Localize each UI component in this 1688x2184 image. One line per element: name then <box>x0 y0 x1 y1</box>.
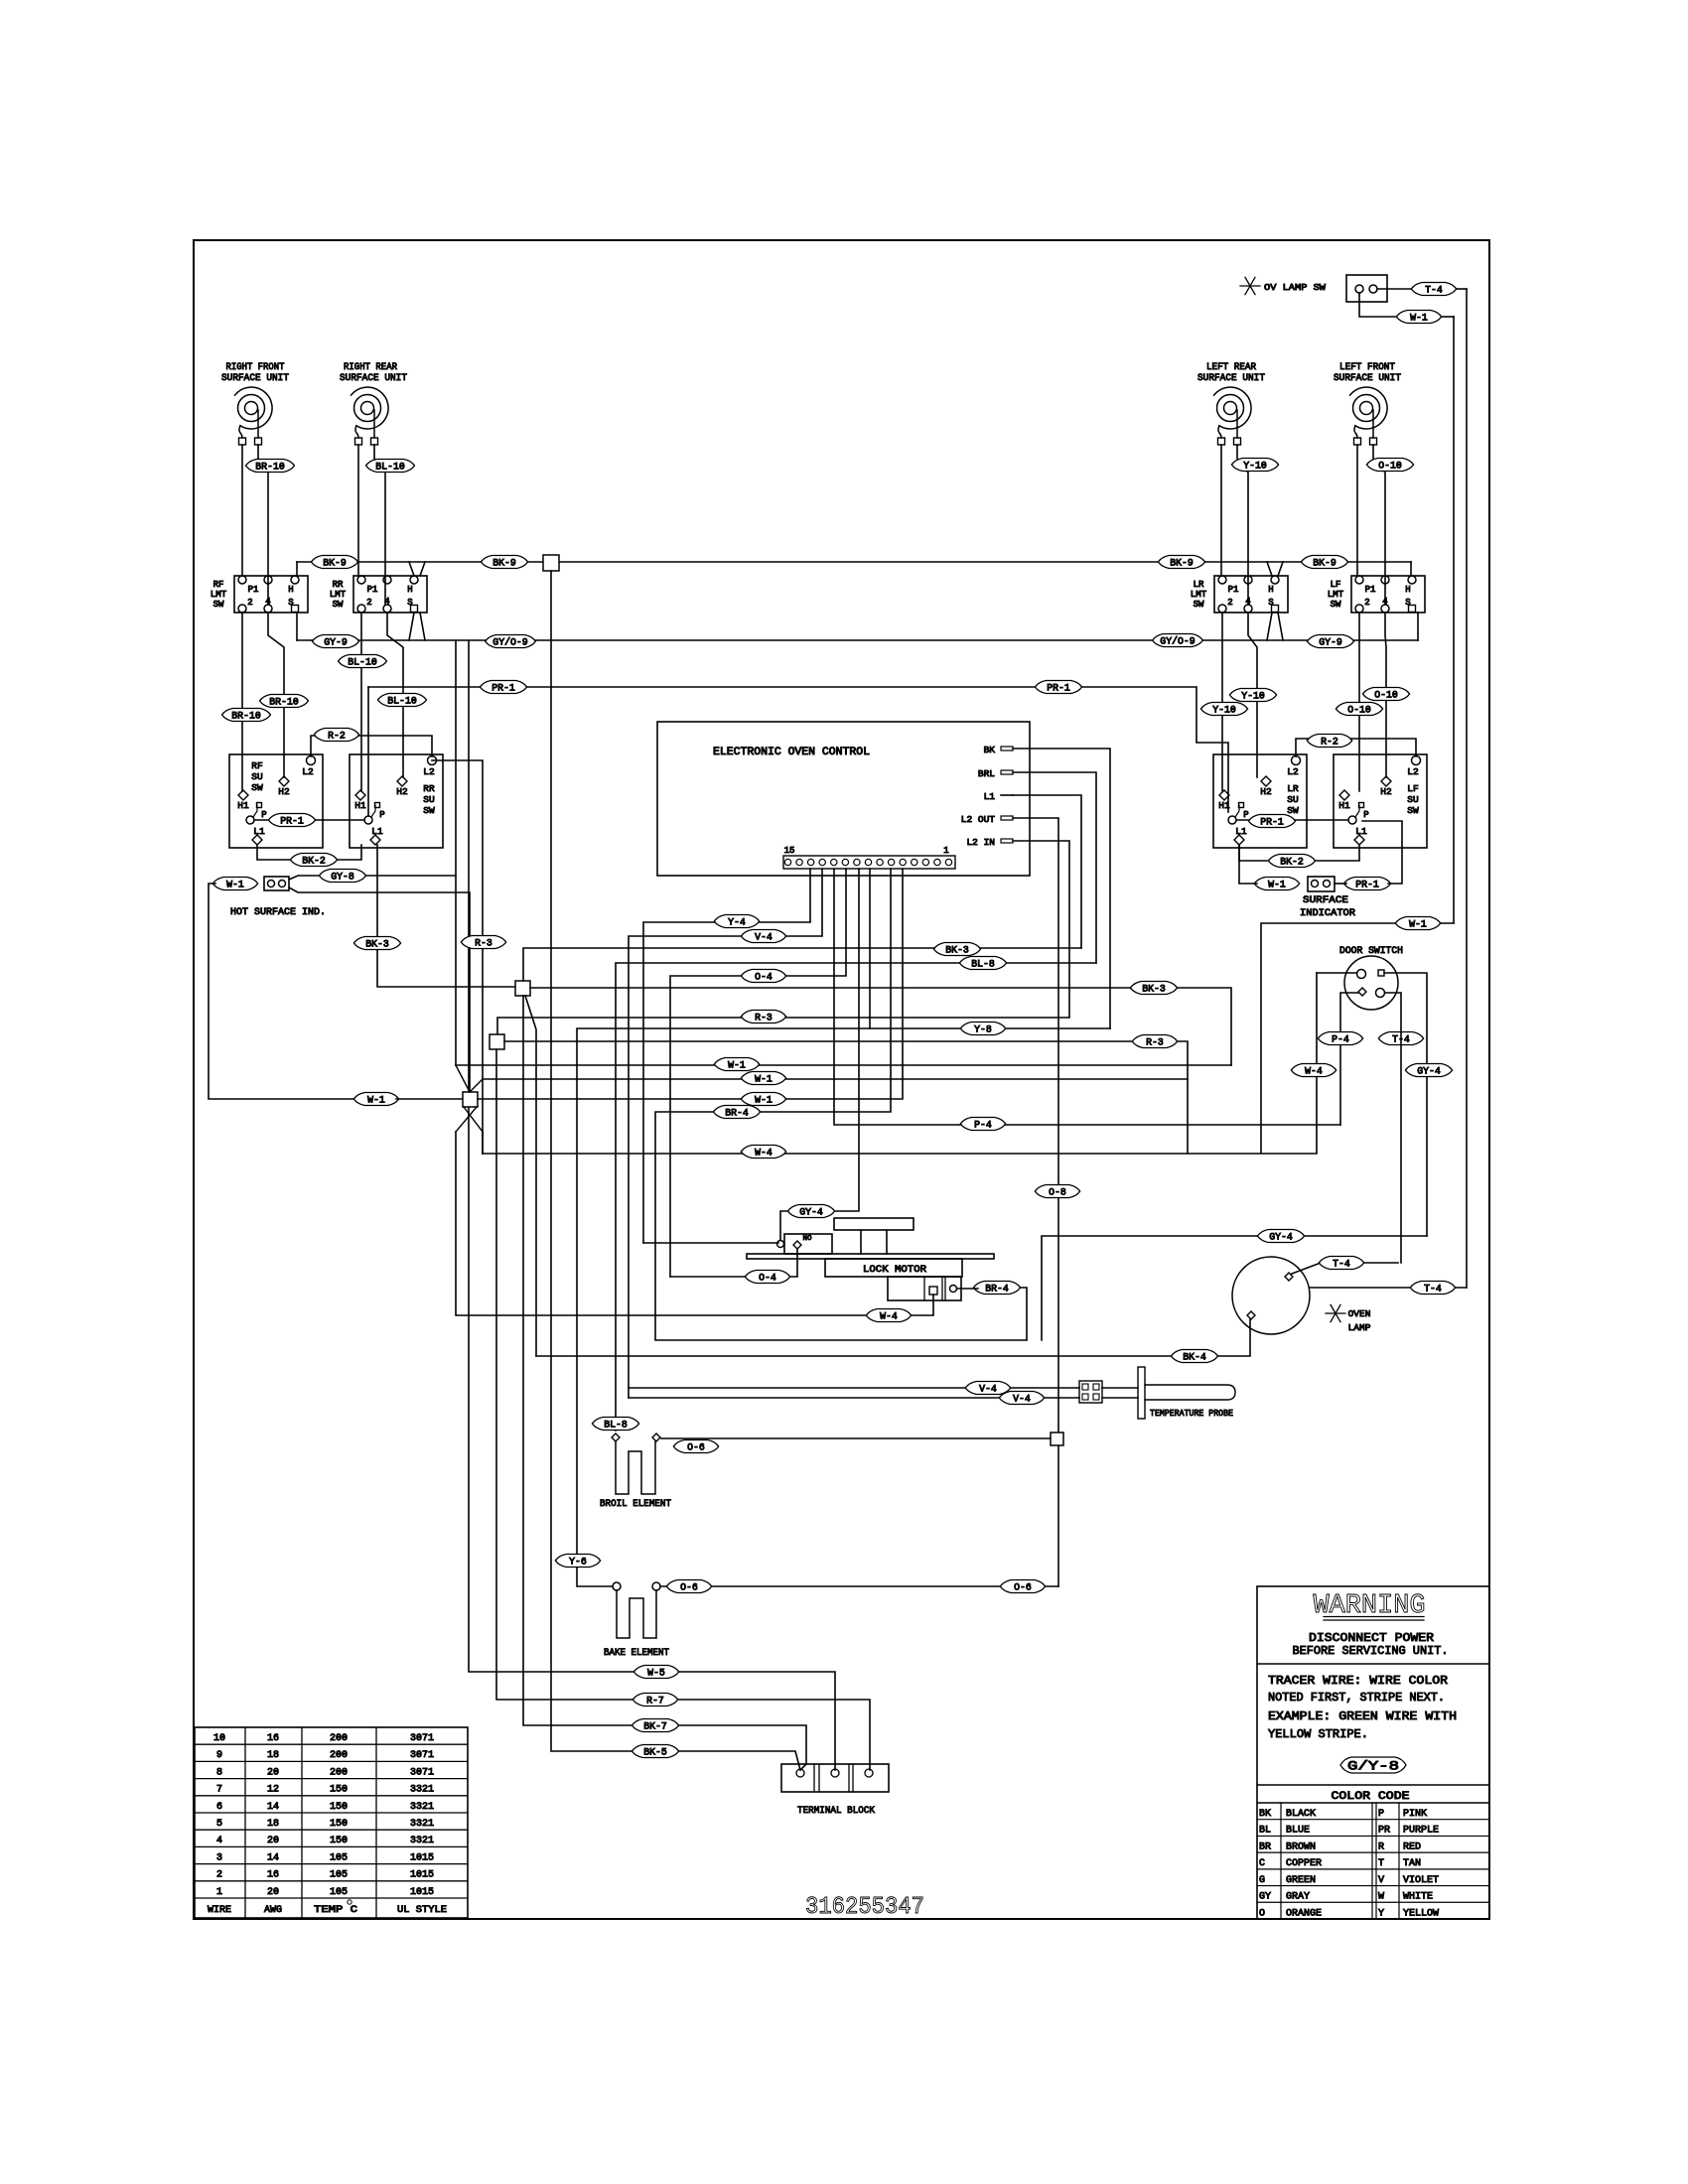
electronic oven control title <box>713 747 870 758</box>
wire RF coil t2 <box>258 445 268 605</box>
label W-4 door <box>1291 1064 1336 1078</box>
svg-text:OVEN: OVEN <box>1348 1308 1371 1319</box>
wire R-2 right <box>1296 739 1416 756</box>
EOC terminal L2 IN <box>966 837 1013 848</box>
svg-text:3: 3 <box>216 1852 222 1863</box>
svg-text:8: 8 <box>216 1767 222 1778</box>
wire BK-3 right from junction <box>530 988 1231 1065</box>
wire Y-8 line <box>577 869 1110 1586</box>
svg-text:BL-10: BL-10 <box>375 462 405 473</box>
svg-text:3071: 3071 <box>410 1750 434 1761</box>
wire L2 RR drop x486 <box>432 760 483 1154</box>
svg-text:V-4: V-4 <box>979 1384 997 1395</box>
wire O-4 lock <box>670 1249 797 1277</box>
wire BK-2 right <box>1239 845 1359 861</box>
svg-text:NOTED FIRST, STRIPE NEXT.: NOTED FIRST, STRIPE NEXT. <box>1268 1691 1445 1705</box>
label R-7 <box>633 1694 677 1707</box>
wire GY-9 drop x459 <box>455 640 457 1065</box>
svg-text:Y-10: Y-10 <box>1212 705 1236 716</box>
svg-text:BLACK: BLACK <box>1286 1809 1316 1820</box>
svg-text:PR-1: PR-1 <box>280 816 304 827</box>
svg-text:V: V <box>1378 1875 1384 1886</box>
wire door LR <box>1385 993 1401 1263</box>
left front surface unit coil <box>1350 387 1388 445</box>
wire V-4 line1 <box>629 1387 1079 1389</box>
asterisk ov lamp sw <box>1240 277 1260 294</box>
svg-text:O-6: O-6 <box>680 1582 698 1593</box>
lock motor text <box>863 1265 926 1276</box>
svg-text:P: P <box>1378 1809 1384 1820</box>
EOC pin label 15 <box>784 846 795 856</box>
svg-text:BK-9: BK-9 <box>323 558 347 569</box>
svg-text:ORANGE: ORANGE <box>1286 1908 1322 1919</box>
svg-text:SU: SU <box>423 794 435 805</box>
svg-text:BAKE ELEMENT: BAKE ELEMENT <box>604 1648 669 1659</box>
svg-text:2: 2 <box>366 598 371 608</box>
left rear surface unit label <box>1197 362 1265 384</box>
surface indicator text <box>1300 895 1355 919</box>
label BL-8 broil <box>592 1418 638 1432</box>
svg-text:150: 150 <box>330 1802 348 1813</box>
svg-text:H2: H2 <box>278 786 290 797</box>
door switch text <box>1339 946 1403 957</box>
label W-1 left line <box>353 1093 398 1107</box>
svg-text:3071: 3071 <box>410 1767 434 1778</box>
broil element text <box>600 1499 671 1510</box>
lock motor bar <box>747 1254 994 1259</box>
wire GY-4 lock <box>780 869 859 1240</box>
tracer text3 <box>1268 1709 1457 1723</box>
label T-4 door <box>1378 1032 1423 1046</box>
svg-text:LR: LR <box>1287 783 1299 794</box>
svg-text:W-4: W-4 <box>1305 1066 1323 1077</box>
svg-text:SW: SW <box>1287 805 1299 816</box>
svg-text:14: 14 <box>267 1852 279 1863</box>
LR LMT SW box <box>1191 576 1288 613</box>
svg-text:COPPER: COPPER <box>1286 1858 1322 1869</box>
svg-text:H: H <box>1268 585 1273 595</box>
svg-text:GY-4: GY-4 <box>799 1207 823 1218</box>
svg-text:W-5: W-5 <box>647 1668 665 1679</box>
svg-text:R-3: R-3 <box>755 1013 773 1024</box>
label T-4 top <box>1411 283 1456 297</box>
wire W-1 door line <box>1261 923 1454 1153</box>
wire T-4 lamp1 <box>1292 1263 1398 1274</box>
svg-text:W-1: W-1 <box>1409 919 1427 930</box>
svg-text:SW: SW <box>251 782 263 793</box>
svg-text:Y-10: Y-10 <box>1243 461 1267 472</box>
wire PR-1 stub RR P <box>367 687 369 815</box>
svg-text:GREEN: GREEN <box>1286 1875 1316 1886</box>
svg-text:O-6: O-6 <box>687 1442 705 1453</box>
wire L1 terminal <box>1013 795 1081 948</box>
wire BK-4 diag from junction <box>525 996 536 1356</box>
border frame <box>194 240 1489 1919</box>
svg-text:O-8: O-8 <box>1049 1187 1066 1198</box>
svg-text:PR: PR <box>1378 1826 1390 1837</box>
label W-4 line <box>741 1146 785 1160</box>
svg-text:BR-10: BR-10 <box>255 462 285 473</box>
svg-text:R-3: R-3 <box>1146 1037 1164 1048</box>
surface indicator box <box>1308 877 1335 891</box>
svg-text:BL-10: BL-10 <box>387 696 417 707</box>
svg-text:T-4: T-4 <box>1333 1259 1350 1270</box>
EOC connector strip <box>783 856 955 869</box>
wire pin drop Y-4 <box>643 869 810 1243</box>
svg-text:W-1: W-1 <box>226 880 244 890</box>
svg-text:LR: LR <box>1194 580 1204 590</box>
door switch pin LR <box>1376 989 1385 998</box>
svg-text:SURFACE UNIT: SURFACE UNIT <box>1197 373 1265 384</box>
label BL-10 coil <box>366 460 415 474</box>
door switch circle <box>1344 956 1398 1010</box>
svg-text:LMT: LMT <box>1191 590 1207 600</box>
label P-4 door <box>1318 1032 1362 1046</box>
wire T-4 lamp2 <box>1310 1287 1467 1289</box>
broil element terminals <box>612 1433 660 1441</box>
svg-text:2: 2 <box>1364 598 1369 608</box>
color code title <box>1332 1791 1410 1803</box>
svg-text:18: 18 <box>267 1819 279 1830</box>
svg-text:L2: L2 <box>1287 766 1299 777</box>
wire LR pin2 to H1 <box>1221 613 1223 791</box>
wire PR-1 LR-LF <box>1236 819 1348 821</box>
wire RF pin2 to H1 <box>241 613 243 791</box>
svg-text:P1: P1 <box>367 585 378 595</box>
label PR-1 a <box>480 681 526 695</box>
svg-text:SU: SU <box>251 771 263 782</box>
label W-5 <box>633 1666 678 1680</box>
wire BL-8 line <box>616 963 1096 1431</box>
svg-text:2: 2 <box>247 598 252 608</box>
svg-text:DISCONNECT POWER: DISCONNECT POWER <box>1309 1631 1434 1645</box>
warning title <box>1314 1591 1426 1621</box>
right front surface unit coil <box>235 387 273 445</box>
svg-text:BK-3: BK-3 <box>945 945 969 956</box>
broil element <box>616 1441 655 1494</box>
wire RR coil t2 <box>374 445 385 605</box>
svg-text:BK-7: BK-7 <box>643 1721 667 1732</box>
svg-text:SURFACE: SURFACE <box>1303 895 1348 906</box>
svg-text:BL-8: BL-8 <box>604 1420 628 1431</box>
label Y-10 h1 <box>1200 703 1247 717</box>
svg-text:BRL: BRL <box>978 768 995 779</box>
label O-10 h2 <box>1362 688 1409 702</box>
label PR-1 b <box>1035 681 1081 695</box>
svg-text:RED: RED <box>1403 1842 1421 1852</box>
label BK-3 mid <box>933 943 980 957</box>
color code grid <box>1257 1803 1489 1919</box>
wire door LL <box>1340 993 1358 1125</box>
svg-text:RF: RF <box>213 580 224 590</box>
wire GY-O-9 drop W-5 <box>469 641 835 1770</box>
wire T-4 from lamp sw <box>1377 289 1467 1288</box>
svg-text:W-1: W-1 <box>755 1074 773 1085</box>
label W-1 line3 <box>741 1093 785 1107</box>
left rear surface unit coil <box>1214 387 1252 445</box>
svg-text:BROWN: BROWN <box>1286 1842 1316 1852</box>
right rear surface unit label <box>340 362 407 384</box>
svg-text:PINK: PINK <box>1403 1809 1427 1820</box>
wire W-1 X above junction <box>456 1065 483 1092</box>
wire BK-3 up from junction <box>523 948 1081 981</box>
svg-text:L2 IN: L2 IN <box>966 837 995 848</box>
svg-text:COLOR CODE: COLOR CODE <box>1332 1791 1410 1803</box>
label GY-8 <box>319 870 365 884</box>
svg-text:TEMP C: TEMP C <box>314 1905 357 1916</box>
warning text1 <box>1309 1631 1434 1645</box>
svg-text:316255347: 316255347 <box>805 1894 924 1921</box>
svg-text:O: O <box>1259 1908 1265 1919</box>
svg-text:BK: BK <box>984 745 996 755</box>
wire BK-2 left <box>257 845 361 860</box>
svg-text:2: 2 <box>1227 598 1232 608</box>
svg-text:T-4: T-4 <box>1424 1284 1442 1295</box>
svg-text:150: 150 <box>330 1836 348 1846</box>
label BK-2 left <box>290 854 337 868</box>
svg-text:WIRE: WIRE <box>208 1905 231 1916</box>
svg-text:BK-9: BK-9 <box>1313 558 1336 569</box>
svg-text:R-2: R-2 <box>328 731 346 742</box>
svg-text:NO: NO <box>802 1235 812 1243</box>
svg-text:LEFT FRONT: LEFT FRONT <box>1339 362 1395 373</box>
svg-text:V-4: V-4 <box>1013 1394 1031 1405</box>
wire RR pin2 to H1 <box>360 613 362 791</box>
wire W-1 into junction <box>396 1098 463 1100</box>
wire W-1 line1 <box>456 1064 1231 1066</box>
svg-text:3321: 3321 <box>410 1785 434 1796</box>
svg-text:RR: RR <box>423 783 435 794</box>
door switch pin UR <box>1378 970 1384 976</box>
label Y-10 h2 <box>1229 689 1276 703</box>
temperature probe text <box>1150 1409 1233 1419</box>
svg-text:RR: RR <box>333 580 344 590</box>
svg-text:H2: H2 <box>1260 786 1272 797</box>
svg-text:1015: 1015 <box>410 1870 434 1881</box>
label W-1 line1 <box>714 1058 759 1072</box>
svg-text:BROIL ELEMENT: BROIL ELEMENT <box>600 1499 671 1510</box>
EOC terminal BK <box>984 745 1013 755</box>
label BR-10 coil <box>246 460 295 474</box>
label BL-10 h1 <box>339 655 387 669</box>
svg-text:4: 4 <box>216 1836 222 1846</box>
svg-text:T: T <box>1378 1858 1384 1869</box>
wire W-1 from lamp sw <box>1359 293 1454 923</box>
label R-2 right <box>1307 735 1351 749</box>
svg-text:L2: L2 <box>302 766 314 777</box>
svg-text:BR-4: BR-4 <box>985 1284 1009 1295</box>
svg-text:SW: SW <box>1194 600 1204 610</box>
wire L2 OUT terminal <box>1013 818 1058 1586</box>
svg-text:SW: SW <box>423 805 435 816</box>
svg-text:BK-2: BK-2 <box>302 856 326 867</box>
wire W-1 line2 <box>483 1078 1188 1080</box>
svg-text:P-4: P-4 <box>974 1120 992 1131</box>
svg-text:SW: SW <box>1407 805 1419 816</box>
wire P-4 line <box>834 869 1340 1125</box>
svg-text:P: P <box>261 810 266 820</box>
svg-text:VIOLET: VIOLET <box>1403 1875 1439 1886</box>
wire LF coil t1 <box>1356 445 1358 576</box>
label BK-4 <box>1171 1350 1217 1364</box>
svg-text:P1: P1 <box>1228 585 1239 595</box>
label GY/O-9 b <box>486 635 536 649</box>
label R-2 left <box>314 729 358 743</box>
svg-text:PR-1: PR-1 <box>1260 817 1284 828</box>
svg-text:R: R <box>1378 1842 1384 1852</box>
svg-text:WHITE: WHITE <box>1403 1892 1433 1903</box>
svg-text:R-2: R-2 <box>1321 737 1338 748</box>
lock motor switch box <box>777 1234 833 1254</box>
wire x486 down W-4 <box>482 1132 484 1154</box>
svg-text:3321: 3321 <box>410 1836 434 1846</box>
ov lamp sw box <box>1346 275 1387 302</box>
label V-4 line1 <box>965 1382 1010 1396</box>
svg-text:H2: H2 <box>1380 786 1392 797</box>
svg-text:SW: SW <box>333 600 344 610</box>
wire BK-9 main <box>297 562 1411 576</box>
svg-text:LOCK MOTOR: LOCK MOTOR <box>863 1265 926 1276</box>
label BK-9 c <box>1158 556 1204 570</box>
node junction W-1 <box>463 1092 478 1107</box>
svg-text:ELECTRONIC OVEN CONTROL: ELECTRONIC OVEN CONTROL <box>713 747 870 758</box>
svg-text:W-1: W-1 <box>1410 313 1428 324</box>
svg-text:BR-10: BR-10 <box>269 697 299 708</box>
label R-3 left <box>741 1011 785 1024</box>
svg-text:G/Y-8: G/Y-8 <box>1347 1759 1399 1774</box>
label W-1 door <box>1395 917 1440 931</box>
svg-text:BK-4: BK-4 <box>1183 1352 1206 1363</box>
label GY-9 a <box>312 635 358 649</box>
svg-text:3321: 3321 <box>410 1802 434 1813</box>
label O-6 bake a <box>666 1580 711 1594</box>
svg-text:BLUE: BLUE <box>1286 1826 1310 1837</box>
label O-6 broil <box>673 1440 718 1454</box>
svg-text:TRACER WIRE: WIRE COLOR: TRACER WIRE: WIRE COLOR <box>1268 1674 1448 1688</box>
node junction BK-3 <box>515 981 530 996</box>
label BK-3 x381 <box>353 937 400 951</box>
svg-text:SU: SU <box>1287 794 1299 805</box>
label BK-7 <box>632 1719 678 1733</box>
label GY-4 door <box>1405 1064 1452 1078</box>
label BL-8 mid <box>959 957 1006 971</box>
LF LMT SW box <box>1328 576 1425 613</box>
wire pin drop O-4 <box>670 869 846 1277</box>
wire PR-1 RF-RR <box>254 819 364 821</box>
warning text2 <box>1293 1644 1449 1658</box>
svg-text:TERMINAL BLOCK: TERMINAL BLOCK <box>797 1806 875 1817</box>
lock motor pin W4 <box>929 1287 937 1295</box>
svg-text:H: H <box>1405 585 1410 595</box>
wire RR pin4 to H2 <box>387 613 403 777</box>
svg-text:Y-8: Y-8 <box>974 1024 992 1035</box>
wire W-1 line3 right <box>478 869 903 1099</box>
svg-text:PURPLE: PURPLE <box>1403 1826 1439 1837</box>
wire x459 down to lock line <box>456 1132 933 1315</box>
wire door UL <box>1317 972 1356 974</box>
label BR-4 right <box>973 1282 1020 1296</box>
label PR-1 su left <box>268 814 315 828</box>
wire BK-9 vee RR <box>409 562 425 576</box>
label BK-2 right <box>1268 855 1315 869</box>
svg-text:200: 200 <box>330 1767 348 1778</box>
svg-text:P: P <box>1243 810 1248 820</box>
svg-text:L1: L1 <box>1235 826 1247 837</box>
svg-text:C: C <box>1259 1858 1265 1869</box>
svg-text:BK-3: BK-3 <box>365 939 389 950</box>
svg-text:9: 9 <box>216 1750 222 1761</box>
left front surface unit label <box>1334 362 1401 384</box>
svg-text:GY/O-9: GY/O-9 <box>1160 635 1195 647</box>
label O-6 bake b <box>1000 1580 1045 1594</box>
wire R-7 down from junction <box>496 1049 870 1770</box>
svg-text:L2: L2 <box>423 766 435 777</box>
label T-4 lamp1 <box>1319 1257 1363 1271</box>
bake element <box>617 1590 656 1638</box>
label GY-4 lock <box>787 1205 834 1219</box>
svg-text:L1: L1 <box>371 826 383 837</box>
wire W-1 si to L1 <box>1239 845 1257 884</box>
label BK-9 d <box>1301 556 1347 570</box>
terminal block <box>781 1764 889 1792</box>
svg-text:P-4: P-4 <box>1332 1034 1349 1045</box>
wire LR pin4 to H2 <box>1248 613 1257 777</box>
hot surface indicator box <box>264 877 289 890</box>
svg-text:H1: H1 <box>237 800 249 811</box>
svg-text:GY-8: GY-8 <box>331 872 354 883</box>
tracer text2 <box>1268 1691 1445 1705</box>
svg-text:12: 12 <box>267 1785 279 1796</box>
oven lamp circle <box>1232 1257 1310 1334</box>
label V-4 <box>741 930 785 944</box>
LR SU SW box <box>1213 754 1307 848</box>
svg-text:200: 200 <box>330 1750 348 1761</box>
label Y-8 <box>960 1023 1005 1036</box>
svg-text:20: 20 <box>267 1887 279 1898</box>
wire RR coil t1 <box>357 445 359 576</box>
wire BK-9 drop BK-5 <box>551 571 800 1770</box>
svg-text:LMT: LMT <box>211 590 227 600</box>
LF SU SW box <box>1334 754 1427 848</box>
svg-text:GY-4: GY-4 <box>1269 1232 1293 1243</box>
label BL-10 h2 <box>378 694 427 708</box>
svg-text:EXAMPLE: GREEN WIRE WITH: EXAMPLE: GREEN WIRE WITH <box>1268 1709 1457 1723</box>
svg-text:GY/O-9: GY/O-9 <box>492 636 527 648</box>
svg-text:OV LAMP SW: OV LAMP SW <box>1264 282 1326 293</box>
wire RF pin4 to H2 <box>268 613 284 777</box>
svg-text:BR-10: BR-10 <box>231 711 261 722</box>
wire GY-9 vee LR <box>1267 613 1283 640</box>
node BK-9 junction square <box>543 555 559 571</box>
svg-text:SW: SW <box>1331 600 1341 610</box>
svg-text:7: 7 <box>216 1785 222 1796</box>
svg-text:S: S <box>407 598 412 608</box>
wire LR coil t1 <box>1220 445 1222 576</box>
svg-text:BEFORE SERVICING UNIT.: BEFORE SERVICING UNIT. <box>1293 1644 1449 1658</box>
svg-text:O-10: O-10 <box>1378 461 1402 472</box>
wire LR coil t2 <box>1237 445 1248 605</box>
RR SU SW box <box>350 754 443 848</box>
label V-4 line2 <box>999 1392 1044 1406</box>
svg-text:5: 5 <box>216 1819 222 1830</box>
label GY-4 line <box>1257 1230 1304 1244</box>
svg-text:P: P <box>379 810 384 820</box>
svg-text:18: 18 <box>267 1750 279 1761</box>
wire O-6 bake line <box>660 1585 1058 1587</box>
label BR-10 h2 <box>260 695 309 709</box>
label GY/O-9 c <box>1153 634 1203 648</box>
svg-text:W-1: W-1 <box>728 1060 746 1071</box>
